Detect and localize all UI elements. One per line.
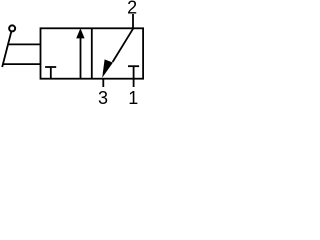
svg-text:3: 3: [98, 88, 108, 108]
svg-text:1: 1: [128, 88, 138, 108]
svg-text:2: 2: [127, 0, 137, 18]
